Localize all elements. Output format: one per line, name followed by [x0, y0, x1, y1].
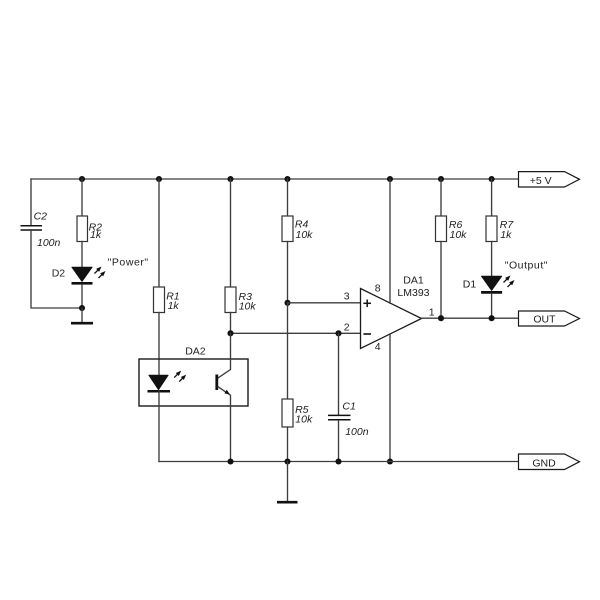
svg-text:D1: D1: [463, 278, 477, 290]
wire R1 to DA2 LED anode: [158, 313, 160, 376]
wire DA2 transistor collector: [218, 333, 230, 378]
wire R4 to divider node: [287, 242, 289, 303]
ground symbol below R5: [277, 462, 298, 503]
wire pin4 to ground rail: [389, 334, 391, 462]
net flag OUT: [519, 311, 580, 326]
svg-text:3: 3: [344, 291, 350, 303]
resistor R6: [436, 216, 447, 242]
LED D2 emission arrows: [93, 265, 107, 280]
junction pin4 on ground rail: [387, 458, 393, 464]
svg-text:DA1: DA1: [403, 275, 424, 287]
wire C2 top: [30, 179, 32, 225]
optocoupler DA2 box: [139, 359, 248, 406]
wire R1 top: [158, 179, 160, 287]
net flag GND: [519, 454, 580, 470]
svg-text:1: 1: [429, 306, 435, 318]
wire +5V top rail: [31, 178, 519, 180]
resistor R7: [486, 216, 497, 242]
wire D1 to output: [491, 294, 493, 319]
wire output pin1: [422, 317, 519, 319]
LED D2: [72, 267, 93, 283]
svg-text:1k: 1k: [500, 229, 512, 241]
svg-text:C2: C2: [34, 211, 48, 223]
wire R7 to D1: [491, 242, 493, 277]
junction R6 on +5V rail: [438, 176, 444, 182]
wire R3 top: [230, 179, 232, 287]
svg-text:"Power": "Power": [108, 256, 149, 268]
LED D1 emission arrows: [502, 274, 516, 289]
svg-text:GND: GND: [532, 457, 556, 469]
junction C1 on ground rail: [335, 458, 341, 464]
junction C2/D2 ground node: [79, 305, 85, 311]
svg-text:100n: 100n: [37, 237, 61, 249]
junction emitter on ground rail: [227, 458, 233, 464]
resistor R1: [154, 287, 165, 313]
junction R3 on +5V rail: [227, 176, 233, 182]
capacitor C1: [328, 415, 351, 419]
svg-text:8: 8: [375, 282, 381, 294]
junction R6 output: [438, 315, 444, 321]
svg-text:2: 2: [344, 321, 350, 333]
DA2 LED: [148, 375, 171, 391]
svg-text:LM393: LM393: [397, 287, 429, 299]
wire R6 to output: [440, 242, 442, 319]
wire pin8 supply: [389, 179, 391, 303]
junction R2 on +5V rail: [79, 176, 85, 182]
svg-text:+5 V: +5 V: [530, 175, 552, 187]
op-amp DA1: [361, 289, 422, 349]
svg-text:DA2: DA2: [185, 346, 206, 358]
wire C2 bottom to ground node: [31, 231, 82, 308]
svg-text:"Output": "Output": [505, 259, 548, 271]
wire R6 top: [440, 179, 442, 216]
svg-text:4: 4: [375, 341, 381, 353]
wire R4 top: [287, 179, 289, 216]
junction D1 output: [489, 315, 495, 321]
wire C1 top: [338, 333, 340, 415]
wire DA2 LED cathode to ground rail: [158, 391, 160, 462]
op-amp minus input marker: [363, 333, 371, 335]
wire D2 to ground node: [81, 285, 83, 308]
ground symbol below D2: [71, 308, 93, 323]
power flag +5 V: [519, 172, 580, 187]
junction R3/collector on pin2 wire: [227, 330, 233, 336]
wire C1 bottom: [338, 421, 340, 462]
wire R5 bottom: [287, 427, 289, 462]
resistor R4: [282, 216, 293, 242]
wire R2 to D2: [81, 242, 83, 268]
wire R2 top: [81, 179, 83, 216]
svg-text:10k: 10k: [295, 414, 313, 426]
resistor R2: [77, 216, 88, 242]
resistor R3: [225, 287, 236, 313]
junction R1 on +5V rail: [156, 176, 162, 182]
svg-text:10k: 10k: [450, 229, 468, 241]
svg-text:C1: C1: [342, 401, 355, 413]
svg-text:1k: 1k: [90, 229, 102, 241]
junction C1 on pin2 wire: [335, 330, 341, 336]
svg-text:OUT: OUT: [533, 313, 556, 325]
svg-text:1k: 1k: [168, 300, 180, 312]
junction R4 on +5V rail: [284, 176, 290, 182]
DA2 phototransistor emitter: [218, 387, 230, 462]
svg-text:10k: 10k: [239, 301, 257, 313]
wire pin2 inverting input: [231, 332, 361, 334]
junction divider node pin3: [284, 300, 290, 306]
svg-text:10k: 10k: [296, 229, 314, 241]
DA2 phototransistor base bar: [215, 375, 218, 391]
wire pin3 non-inverting input: [288, 302, 361, 304]
wire R3 to inverting node: [230, 313, 232, 334]
LED D1: [481, 276, 502, 292]
svg-text:D2: D2: [52, 267, 66, 279]
junction R5 on ground rail: [284, 458, 290, 464]
resistor R5: [282, 399, 293, 427]
wire divider node to R5: [287, 303, 289, 399]
wire R7 top: [491, 179, 493, 216]
svg-text:100n: 100n: [345, 426, 369, 438]
junction R7 on +5V rail: [489, 176, 495, 182]
wire bottom ground rail: [159, 461, 519, 463]
junction pin8 on +5V rail: [387, 176, 393, 182]
DA2 LED emission arrows: [173, 369, 188, 383]
op-amp plus input marker: [363, 300, 371, 308]
capacitor C2: [21, 226, 43, 230]
